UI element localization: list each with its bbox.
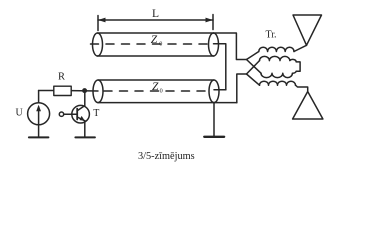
svg-text:Z: Z: [152, 81, 159, 93]
svg-text:3/5-zīmējums: 3/5-zīmējums: [138, 151, 195, 162]
wire: top coax shield to transformer: [214, 33, 247, 60]
svg-text:0: 0: [160, 87, 163, 94]
left tick: [97, 16, 99, 31]
base bar: [76, 109, 78, 120]
svg-text:R: R: [58, 72, 65, 83]
wire: bottom coax shield to transformer: [237, 74, 247, 103]
ground bar: [75, 136, 95, 138]
dimension line: [98, 19, 213, 21]
svg-text:Z: Z: [151, 34, 158, 46]
circle: [28, 103, 50, 125]
transformer bottom winding: [260, 81, 296, 85]
current source U: [16, 91, 50, 138]
svg-text:U: U: [16, 108, 24, 119]
right end ellipse: [209, 33, 219, 56]
wire: junction down to transistor collector: [84, 91, 86, 106]
wire: resistor to coax 2 center: [71, 90, 98, 92]
right tick: [212, 15, 214, 30]
collector: [77, 106, 85, 111]
body circle: [72, 105, 90, 123]
coax transmission line 2 (bottom cylinder): [93, 80, 237, 103]
wire: diagonal top stub to middle winding bottom edge (crossing): [247, 60, 262, 74]
emitter with arrow: [77, 117, 85, 121]
base terminal circle: [59, 112, 63, 116]
svg-text:0: 0: [159, 40, 162, 47]
resistor R: [54, 72, 71, 96]
wire: diagonal top stub to top winding: [247, 52, 259, 60]
base wire: [64, 113, 77, 115]
antenna top (inverted triangle): [293, 15, 322, 45]
bottom edge: [98, 55, 214, 57]
wire: top winding to top antenna: [294, 45, 307, 51]
ground (below coax right end): [204, 103, 224, 137]
wire: diagonal bottom stub to bottom winding: [247, 74, 260, 85]
wire: bottom coax center conductor: [214, 89, 226, 91]
ground bar: [29, 136, 49, 138]
right end ellipse: [209, 80, 219, 103]
left end ellipse: [93, 33, 103, 56]
vertical wire through source: [38, 91, 40, 137]
transformer top winding: [259, 47, 294, 51]
bottom edge (extends right to shield wire): [98, 102, 237, 104]
transistor T: [59, 105, 99, 137]
top edge: [98, 32, 214, 34]
emitter wire down: [84, 121, 86, 137]
wire: diagonal bottom stub to middle winding top edge (crossing): [247, 61, 260, 74]
coax transmission line 1 (top cylinder): [91, 33, 219, 56]
junction node: [82, 88, 87, 93]
arrow inside: [38, 107, 40, 124]
svg-text:T: T: [93, 108, 99, 119]
right arrowhead: [206, 18, 214, 23]
wire: source to resistor: [39, 90, 54, 92]
left arrowhead: [98, 18, 106, 23]
transformer middle winding (closed scalloped loop): [260, 56, 301, 77]
svg-text:Tr.: Tr.: [266, 30, 277, 41]
dimension line L: [98, 8, 213, 31]
left end ellipse: [93, 80, 103, 103]
antenna bottom (triangle): [293, 92, 323, 120]
dashed axis: [91, 43, 213, 45]
top edge: [98, 79, 214, 81]
wire: top coax center conductor down to bottom center conductor: [214, 44, 226, 90]
dashed axis: [104, 90, 209, 92]
svg-text:L: L: [152, 8, 159, 20]
wire: bottom winding to bottom antenna: [296, 85, 308, 91]
